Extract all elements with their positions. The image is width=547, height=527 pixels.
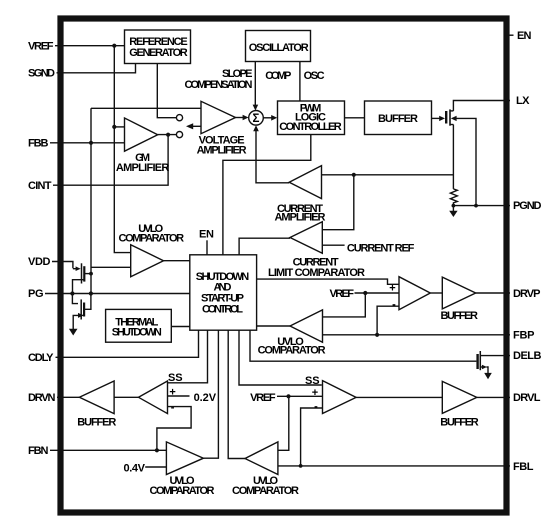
- svg-text:BUFFER: BUFFER: [440, 417, 479, 429]
- svg-text:COMPARATOR: COMPARATOR: [150, 485, 215, 497]
- svg-text:LIMIT COMPARATOR: LIMIT COMPARATOR: [268, 267, 365, 279]
- svg-text:COMPARATOR: COMPARATOR: [258, 345, 326, 357]
- wire reference generator output down to switch contact: [157, 64, 176, 118]
- svg-text:-: -: [171, 401, 175, 413]
- wire PWM logic controller bottom to shutdown control top: [223, 135, 311, 255]
- wire current ref stub to current limit comparator: [322, 244, 344, 246]
- 0.4V UVLO comparator triangle: [166, 442, 203, 475]
- wire CINT pin up to GM amplifier output: [53, 135, 168, 186]
- svg-text:EN: EN: [199, 228, 214, 240]
- svg-text:DELB: DELB: [513, 350, 542, 362]
- wire UVLO comparator - input from FET node: [91, 266, 131, 268]
- node current sense junction: [352, 173, 356, 177]
- svg-text:EN: EN: [517, 30, 532, 42]
- wire shutdown control to DELB pull-down gate: [250, 330, 476, 361]
- wire UVLO comparator output to shutdown control: [164, 260, 190, 262]
- wire switch wiper to voltage amplifier - input: [192, 125, 201, 127]
- node body tie to PGND: [474, 204, 478, 208]
- wire VREF rail down to UVLO comparator + input: [114, 46, 130, 253]
- svg-text:-: -: [314, 401, 318, 413]
- svg-text:VDD: VDD: [28, 256, 51, 268]
- node VREF branch DRVL: [286, 394, 290, 398]
- wire FBB pin to GM amplifier - input: [50, 142, 125, 144]
- wire voltage amplifier output to summer: [236, 117, 244, 119]
- wire oscillator OSC output down to PWM logic controller: [299, 62, 301, 102]
- svg-text:COMPARATOR: COMPARATOR: [119, 232, 185, 244]
- wire current limit comparator output down into shutdown control: [239, 238, 290, 255]
- wire FBP pin to UVLO comparator input: [323, 334, 511, 336]
- wire SS left from shutdown control to 0.2V comparator: [168, 330, 208, 383]
- resistor current sense: [450, 189, 457, 206]
- wire FBL pin to right UVLO comparator input: [278, 465, 510, 467]
- svg-text:SGND: SGND: [28, 67, 55, 79]
- svg-text:CINT: CINT: [28, 180, 52, 192]
- arrow into power FET gate: [439, 116, 445, 121]
- svg-text:+: +: [389, 283, 395, 295]
- UVLO comparator triangle (VDD): [131, 245, 164, 277]
- reference generator block: [125, 30, 191, 64]
- wire PGND line: [453, 205, 510, 207]
- DRVL comparator triangle: [323, 381, 357, 414]
- wire CDLY pin up to shutdown control bottom: [56, 330, 199, 357]
- svg-text:CONTROL: CONTROL: [202, 303, 243, 315]
- right UVLO comparator triangle: [245, 442, 278, 475]
- wire VDD pin to sense FET Q1 gate: [52, 262, 73, 269]
- wire 0.2V comparator + input stub: [168, 395, 190, 397]
- ground arrow below PG FET: [69, 329, 78, 336]
- wire FBB rail up to voltage amplifier + input and down to PG sense FET: [90, 108, 92, 293]
- wire DRVL comparator - input down to FBL line: [301, 408, 323, 466]
- node VREF branch DRVP: [363, 291, 367, 295]
- arrow into summer from current amplifier (slope comp): [253, 125, 259, 131]
- svg-text:GENERATOR: GENERATOR: [129, 47, 188, 59]
- wire current sense tap to current amplifier input: [322, 174, 454, 176]
- wire oscillator COMP output down to summer: [254, 62, 256, 106]
- wire current amplifier output up to summer bottom: [256, 131, 289, 183]
- DRVP buffer triangle: [442, 277, 475, 309]
- svg-text:OSCILLATOR: OSCILLATOR: [249, 42, 309, 54]
- wire SS VREF into DRVL comparator + input: [277, 395, 323, 397]
- svg-text:AMPLIFIER: AMPLIFIER: [275, 211, 326, 223]
- sense FET Q2 (VDD side): [73, 263, 93, 293]
- wire EN pin stub top right: [504, 34, 514, 36]
- svg-text:AMPLIFIER: AMPLIFIER: [197, 145, 247, 157]
- svg-text:+: +: [312, 387, 318, 399]
- wire DRVP comparator - input down to FBP line: [377, 306, 399, 335]
- svg-text:SS: SS: [305, 375, 320, 387]
- current limit comparator triangle: [290, 222, 322, 253]
- arrow switch wiper pointing left: [186, 123, 193, 129]
- svg-text:SS: SS: [168, 372, 183, 384]
- wire 0.2V comparator - input down to FBN: [157, 407, 191, 451]
- svg-text:BUFFER: BUFFER: [440, 310, 478, 322]
- wire current limit comparator output across to DRVP comparator: [257, 279, 399, 284]
- wire FBN pin to 0.4V comparator input: [50, 449, 166, 451]
- wire VREF branch down to right UVLO comparator input: [278, 396, 289, 450]
- svg-text:AMPLIFIER: AMPLIFIER: [116, 162, 170, 174]
- svg-text:+: +: [169, 387, 175, 399]
- GM amplifier triangle: [125, 118, 158, 151]
- arrow into summer from voltage amplifier: [243, 115, 249, 121]
- DRVN buffer triangle: [79, 381, 114, 414]
- svg-text:DRVL: DRVL: [513, 392, 541, 404]
- voltage amplifier triangle: [201, 101, 236, 133]
- svg-text:0.4V: 0.4V: [124, 462, 146, 474]
- wire power FET body to PGND rail: [456, 118, 477, 205]
- svg-text:OSC: OSC: [304, 70, 325, 82]
- node FBB junction: [89, 141, 93, 145]
- node FBN junction: [155, 448, 159, 452]
- wire GM amplifier output to switch contact: [158, 134, 176, 136]
- svg-text:FBN: FBN: [28, 445, 49, 457]
- svg-text:PG: PG: [28, 288, 44, 300]
- svg-text:VREF: VREF: [330, 288, 355, 300]
- wire VREF reference into DRVP comparator + input: [355, 292, 400, 294]
- wire VREF pin to reference generator: [55, 45, 125, 47]
- 0.2V comparator triangle: [139, 381, 168, 414]
- node sense resistor bottom: [452, 204, 456, 208]
- svg-text:DRVP: DRVP: [513, 288, 541, 300]
- wire power FET drain to LX pin: [453, 101, 510, 111]
- wire DRVP buffer output to DRVP pin: [476, 292, 510, 294]
- wire thermal shutdown to shutdown control: [171, 326, 190, 328]
- svg-text:-: -: [392, 298, 396, 310]
- arrow into PWM logic controller: [271, 115, 277, 121]
- wire 0.4V stub to comparator input: [145, 466, 166, 468]
- DRVP comparator triangle: [399, 277, 430, 310]
- svg-text:CURRENT REF: CURRENT REF: [347, 243, 415, 255]
- wire DELB pin to pull-down FET: [480, 355, 510, 357]
- wire DRVP comparator to buffer: [430, 292, 442, 294]
- switch contact from GM amplifier: [176, 132, 182, 138]
- FBP UVLO comparator triangle: [290, 310, 323, 342]
- oscillator block: [246, 31, 311, 62]
- svg-text:COMPARATOR: COMPARATOR: [232, 485, 299, 497]
- svg-text:CONTROLLER: CONTROLLER: [279, 121, 342, 133]
- svg-text:CDLY: CDLY: [28, 352, 54, 364]
- svg-text:BUFFER: BUFFER: [77, 417, 116, 429]
- wire 0.4V comparator output up to shutdown control: [203, 330, 218, 458]
- wire FBB to voltage amplifier + input: [91, 107, 201, 109]
- wire FBP UVLO comparator output to shutdown control: [257, 325, 290, 327]
- node FBL junction: [299, 464, 303, 468]
- wire VREF to GM amplifier + input: [114, 126, 124, 128]
- ground arrow below sense resistor: [449, 206, 457, 217]
- svg-text:VREF: VREF: [28, 40, 54, 52]
- ground arrow below DELB FET: [484, 373, 492, 379]
- sense FET Q3 (PG side): [72, 294, 91, 330]
- wire PWM logic controller to buffer: [345, 117, 365, 119]
- node PG gate tap: [70, 291, 74, 295]
- DELB pull-down FET Q4: [478, 351, 488, 373]
- svg-text:PGND: PGND: [513, 200, 542, 212]
- node GM amplifier output junction: [166, 133, 170, 137]
- current amplifier triangle: [289, 166, 321, 199]
- wire sense tap down to current limit comparator input: [322, 175, 354, 230]
- svg-text:FBP: FBP: [513, 330, 535, 342]
- DRVL buffer triangle: [442, 381, 477, 413]
- wire buffer to power FET gate: [432, 117, 441, 119]
- thermal shutdown block: [106, 309, 172, 342]
- wire PG pin to shutdown control: [45, 293, 190, 295]
- wire SGND pin to reference generator bottom: [57, 64, 136, 73]
- node PG drain tap: [89, 291, 93, 295]
- svg-text:SHUTDOWN: SHUTDOWN: [112, 326, 162, 338]
- wire SS right from shutdown control to DRVL comparator: [239, 330, 322, 385]
- summer node sigma: [249, 111, 264, 126]
- shutdown and start-up control block: [190, 255, 257, 330]
- svg-text:0.2V: 0.2V: [194, 392, 217, 404]
- svg-text:BUFFER: BUFFER: [378, 113, 418, 125]
- wire right UVLO comparator output up to shutdown control: [228, 330, 245, 458]
- wire DRVL buffer output to DRVL pin: [477, 396, 510, 398]
- wire 0.2V comparator output to DRVN buffer: [114, 396, 138, 398]
- wire DRVN buffer output to DRVN pin: [57, 396, 79, 398]
- svg-text:LX: LX: [516, 95, 530, 107]
- node VREF junction: [112, 44, 116, 48]
- outer IC boundary frame: [61, 19, 507, 513]
- wire EN stub into shutdown control: [206, 240, 208, 255]
- node FBP junction: [375, 333, 379, 337]
- power FET Q1 (LX switch): [446, 109, 456, 125]
- arrow into summer from oscillator COMP: [253, 105, 259, 111]
- wire summer to PWM logic controller: [263, 117, 272, 119]
- svg-text:DRVN: DRVN: [28, 392, 56, 404]
- wire power FET source down to sense resistor: [452, 125, 454, 189]
- buffer block: [365, 101, 432, 135]
- svg-text:VREF: VREF: [250, 392, 276, 404]
- switch contact from reference generator: [176, 115, 182, 121]
- svg-text:Σ: Σ: [253, 113, 260, 125]
- svg-text:FBL: FBL: [513, 461, 534, 473]
- svg-text:COMP: COMP: [265, 70, 291, 82]
- svg-text:COMPENSATION: COMPENSATION: [185, 79, 253, 91]
- PWM logic controller block: [278, 101, 345, 135]
- node VREF to GM amp + input: [112, 125, 116, 129]
- svg-text:FBB: FBB: [28, 137, 49, 149]
- wire DRVL comparator output to buffer: [356, 396, 442, 398]
- wire VREF branch down to FBP UVLO comparator input: [323, 293, 366, 317]
